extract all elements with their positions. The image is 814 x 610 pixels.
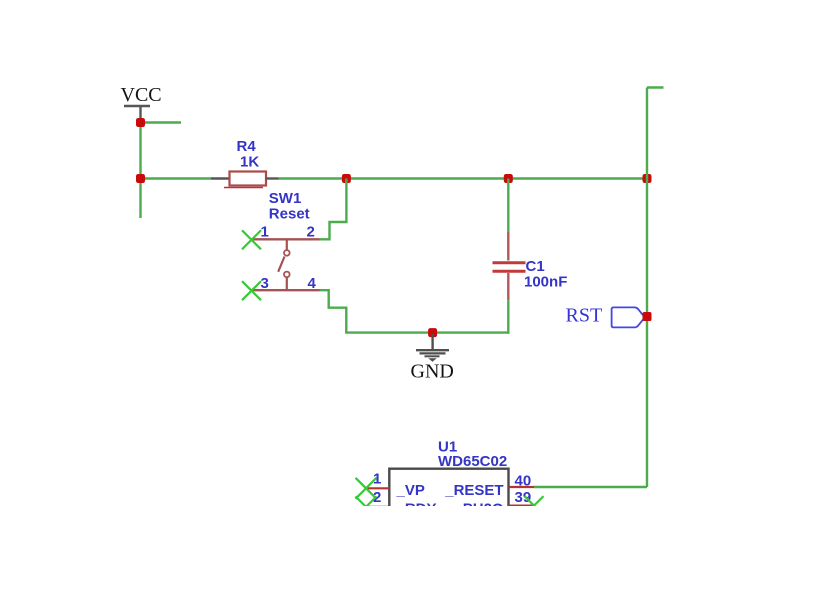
svg-text:1: 1: [373, 471, 381, 488]
wire switch pin4 to ground rail: [320, 290, 509, 332]
pin 1 stub: [366, 487, 389, 489]
junction dot GND: [428, 328, 437, 337]
resistor R4: [211, 172, 279, 188]
svg-text:40: 40: [515, 472, 532, 489]
svg-text:_VP: _VP: [396, 482, 425, 499]
svg-text:R4: R4: [237, 138, 257, 155]
svg-text:1K: 1K: [240, 154, 259, 171]
svg-text:Reset: Reset: [269, 206, 310, 223]
power symbol VCC: [121, 84, 162, 120]
viewport clip mask bottom: [0, 506, 814, 610]
junction dot RST: [643, 312, 652, 321]
junction dot C1 branch: [504, 174, 513, 183]
no-connect cross pin 1: [242, 230, 261, 249]
svg-text:4: 4: [308, 275, 317, 292]
junction dot SW branch: [342, 174, 351, 183]
no-connect cross pin 2: [356, 496, 377, 517]
svg-text:2: 2: [307, 224, 315, 241]
terminal flag RST: [612, 307, 645, 327]
svg-text:RST: RST: [566, 305, 603, 327]
svg-text:GND: GND: [411, 361, 454, 383]
pin 2 stub: [366, 506, 389, 508]
wire right rail vertical: [646, 88, 648, 488]
wire VCC stub right: [141, 121, 182, 123]
ground symbol: [416, 334, 449, 362]
svg-text:SW1: SW1: [269, 190, 302, 207]
no-connect cross pin 39: [525, 496, 544, 515]
capacitor C1: [493, 179, 526, 334]
wire main horizontal middle segment: [279, 177, 648, 179]
wire switch pin2 to main rail: [320, 179, 347, 240]
svg-text:1: 1: [261, 224, 269, 241]
switch actuator: [278, 240, 289, 290]
switch SW1 bottom pole (pins 3-4): [251, 289, 320, 291]
switch SW1 top pole (pins 1-2): [251, 238, 320, 240]
wire pin 40 to right rail: [534, 486, 647, 488]
no-connect cross pin 1: [356, 478, 377, 499]
junction dot main/VCC: [136, 174, 145, 183]
svg-text:WD65C02: WD65C02: [438, 453, 507, 470]
pin 40 stub: [509, 486, 535, 488]
no-connect cross pin 3: [242, 281, 261, 300]
svg-text:100nF: 100nF: [524, 274, 567, 291]
svg-text:_RESET: _RESET: [444, 482, 503, 499]
junction dot at VCC: [136, 118, 145, 127]
wire right rail top stub: [647, 86, 664, 88]
pin 39 stub: [509, 505, 535, 507]
junction dot right rail: [643, 174, 652, 183]
wire main horizontal left segment: [141, 177, 212, 179]
wire VCC vertical: [139, 121, 141, 218]
svg-text:39: 39: [515, 489, 532, 506]
svg-text:C1: C1: [526, 258, 545, 275]
svg-text:VCC: VCC: [121, 84, 162, 106]
IC U1 body: [389, 469, 508, 529]
svg-text:3: 3: [261, 275, 269, 292]
